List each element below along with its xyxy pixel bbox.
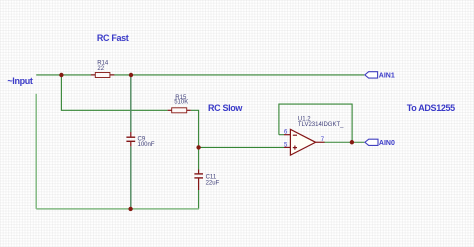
wire C9 branch bottom bbox=[130, 146, 132, 209]
op-amp U1.2 bbox=[284, 116, 344, 155]
wire left vertical return bbox=[35, 94, 37, 209]
svg-text:100nF: 100nF bbox=[138, 142, 155, 148]
wire junction B to op-amp pin5 bbox=[199, 146, 284, 148]
svg-text:AIN0: AIN0 bbox=[379, 140, 395, 147]
global label AIN0 bbox=[365, 139, 395, 147]
resistor R14 bbox=[91, 60, 114, 77]
wire branch from node A down to R15 row bbox=[61, 75, 167, 110]
global label AIN1 bbox=[365, 72, 395, 80]
wire C9 branch top bbox=[130, 75, 132, 132]
wire C11 bottom segment bbox=[198, 190, 200, 209]
wire feedback loop bbox=[279, 104, 352, 142]
wire C11 top segment bbox=[198, 147, 200, 169]
wire main input line bbox=[36, 74, 364, 76]
node junction dot A bbox=[59, 73, 63, 77]
wire bottom return bbox=[36, 208, 199, 210]
capacitor C11 bbox=[194, 170, 219, 191]
capacitor C9 bbox=[126, 132, 154, 148]
svg-text:To ADS1255: To ADS1255 bbox=[407, 103, 455, 113]
svg-text:RC Fast: RC Fast bbox=[97, 33, 129, 43]
node junction dot R14 right bbox=[129, 73, 133, 77]
svg-text:~Input: ~Input bbox=[7, 76, 32, 86]
wire R15 output to C11 junction bbox=[191, 110, 199, 147]
node junction dot C11 top bbox=[196, 145, 200, 149]
node junction dot C9 bottom bbox=[128, 207, 132, 211]
svg-text:22uF: 22uF bbox=[206, 181, 220, 187]
svg-text:22: 22 bbox=[97, 66, 104, 72]
wire op-amp output to AIN0 bbox=[324, 141, 364, 143]
resistor R15 bbox=[168, 95, 191, 113]
svg-text:AIN1: AIN1 bbox=[379, 72, 395, 79]
svg-text:RC Slow: RC Slow bbox=[208, 103, 243, 113]
wire pin6 stub green bbox=[279, 134, 284, 136]
svg-text:510K: 510K bbox=[174, 100, 188, 106]
svg-text:TLV2314IDGKT_: TLV2314IDGKT_ bbox=[298, 122, 344, 128]
node junction dot output bbox=[350, 140, 354, 144]
